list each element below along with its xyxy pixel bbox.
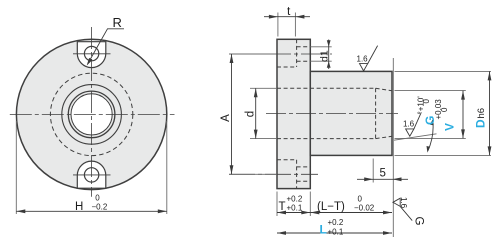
dimension Dh6 line	[489, 71, 491, 155]
horizontal centerline	[10, 113, 175, 115]
svg-text:0: 0	[422, 99, 431, 104]
svg-text:A: A	[220, 114, 232, 122]
svg-text:G: G	[413, 217, 425, 226]
hidden bore top	[277, 87, 376, 89]
svg-text:V: V	[443, 123, 457, 131]
svg-text:1.6: 1.6	[403, 120, 415, 129]
bottom hole axis chain line	[229, 173, 318, 175]
hidden taper top	[376, 88, 392, 90]
hidden bore bottom	[277, 138, 376, 140]
flange section rect	[277, 39, 310, 188]
hub circle	[62, 85, 122, 145]
hidden bottom hole d1	[297, 166, 311, 168]
svg-text:T: T	[279, 201, 286, 213]
svg-text:1.6: 1.6	[399, 197, 408, 209]
svg-text:G: G	[423, 116, 437, 125]
svg-text:d1: d1	[319, 50, 331, 62]
taper extension line	[394, 134, 437, 140]
svg-text:+0.2: +0.2	[328, 218, 344, 227]
main axis chain line	[266, 113, 398, 115]
dimension V extension top	[395, 90, 466, 92]
flange outer circle	[16, 39, 166, 189]
dimension H extension lines	[15, 121, 17, 214]
svg-text:(L−T): (L−T)	[317, 201, 345, 213]
dimension 5	[372, 159, 374, 183]
hidden bottom slot step	[296, 160, 298, 189]
roughness symbol on taper	[406, 129, 414, 136]
top hole	[84, 46, 98, 60]
dimension H line	[16, 210, 167, 212]
R leader	[88, 29, 124, 64]
hidden taper bottom	[376, 136, 392, 138]
top hole axis chain line	[229, 53, 332, 55]
svg-text:0: 0	[95, 194, 100, 203]
svg-text:−0.2: −0.2	[92, 203, 108, 212]
top hole centerline	[73, 53, 111, 55]
dimension d1	[310, 46, 331, 48]
hidden top hole d1	[297, 46, 311, 48]
bottom hole centerline	[73, 174, 111, 176]
svg-text:0: 0	[358, 194, 363, 203]
hidden bottom slot bottom	[277, 159, 297, 161]
roughness symbol on body top	[360, 64, 368, 71]
svg-text:H: H	[75, 201, 83, 213]
svg-text:h6: h6	[476, 108, 487, 119]
vertical centerline	[91, 27, 93, 197]
svg-text:R: R	[113, 15, 122, 30]
dimension V line	[462, 91, 464, 139]
hidden top slot bottom	[277, 66, 297, 68]
angle arc G	[428, 120, 433, 151]
svg-text:°+10': °+10'	[416, 96, 425, 115]
dimension (L-T)	[310, 212, 392, 214]
svg-text:D: D	[474, 119, 488, 128]
dimension d	[250, 87, 277, 89]
dimension T	[276, 192, 278, 217]
svg-text:5: 5	[380, 168, 386, 180]
svg-text:d: d	[244, 111, 256, 117]
hidden body circle (dashed)	[50, 73, 132, 155]
svg-text:−0.02: −0.02	[354, 203, 375, 212]
bottom hole	[84, 168, 98, 182]
dimension L	[277, 232, 392, 234]
bottom slot	[77, 161, 106, 188]
body section rect	[310, 71, 392, 155]
dimension V extension bottom	[395, 137, 466, 139]
dimension A	[229, 53, 276, 55]
top slot	[77, 42, 106, 68]
dimension t	[277, 13, 279, 37]
hidden top slot step	[296, 39, 298, 67]
roughness symbol on end face (rotated)	[393, 198, 400, 206]
svg-text:+0.1: +0.1	[287, 203, 303, 212]
svg-text:+0.2: +0.2	[287, 194, 303, 203]
dimension Dh6 extension lines	[395, 70, 492, 72]
bore chamfer circle	[71, 94, 112, 135]
bore outer circle	[68, 91, 115, 138]
svg-text:+0.1: +0.1	[328, 227, 344, 236]
svg-text:0: 0	[440, 107, 449, 112]
hidden bore end	[375, 88, 377, 138]
svg-text:1.6: 1.6	[357, 55, 369, 64]
svg-text:L: L	[320, 223, 327, 237]
